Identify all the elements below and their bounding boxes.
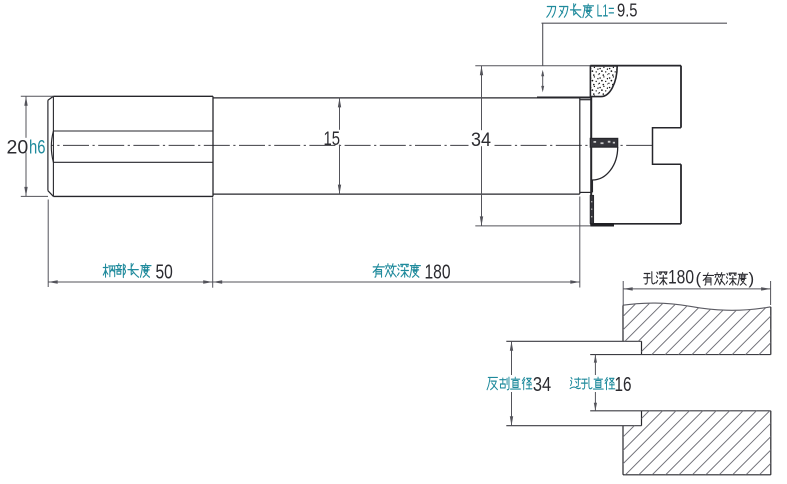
head notch — [653, 128, 682, 165]
text 反刮直径34 — [487, 377, 497, 389]
svg-text:34: 34 — [533, 374, 551, 396]
svg-text:L1=: L1= — [597, 1, 615, 21]
svg-text:50: 50 — [156, 261, 173, 283]
through hole walls — [590, 354, 771, 356]
dim 20h6 line — [25, 96, 27, 196]
svg-text:34: 34 — [471, 129, 491, 151]
text 过孔直径16 — [570, 377, 580, 388]
dim 15 line — [339, 98, 341, 194]
carbide insert middle bar — [590, 138, 617, 147]
carbide insert bottom (edge-on) — [590, 195, 593, 223]
text 有效深度 180 — [373, 264, 384, 277]
shank flat lines — [53, 130, 213, 132]
dim 16 line — [594, 355, 596, 411]
dim 20h6 extension lines — [21, 95, 54, 97]
body outline (d15 bar) — [213, 97, 580, 99]
svg-text:20: 20 — [7, 136, 29, 158]
counterbore walls — [506, 340, 641, 342]
dim hole depth extension lines — [622, 281, 624, 305]
text 刀刃长度L1= 9.5 — [547, 7, 556, 18]
text 孔深180(有效深度) — [644, 272, 655, 284]
dim 34 extension lines — [475, 65, 590, 67]
L1 double arrow — [542, 72, 544, 90]
dim 180 line — [213, 281, 580, 283]
cutter head outline — [590, 66, 592, 224]
hatching top block — [446, 270, 787, 480]
workpiece wavy break line — [623, 303, 771, 310]
dim hole depth line — [623, 288, 770, 290]
flute arc below middle insert — [592, 147, 617, 192]
svg-text:(: ( — [696, 269, 702, 288]
centerline — [51, 144, 653, 146]
svg-text:15: 15 — [324, 128, 341, 150]
dim 50 line — [48, 281, 213, 283]
dim 34 line — [481, 66, 483, 226]
svg-text:): ) — [749, 269, 755, 288]
collar between body and head — [580, 99, 591, 101]
shank/body junction — [212, 96, 214, 196]
svg-text:16: 16 — [615, 374, 632, 396]
dim 34cb line — [511, 341, 513, 425]
text 柄部长度 50 — [103, 264, 115, 277]
svg-text:180: 180 — [668, 268, 694, 289]
bottom insert foot — [590, 223, 614, 226]
shank outline (20 h6) — [47, 100, 49, 191]
carbide insert top (stippled) — [590, 66, 617, 97]
leader line L1 — [542, 22, 728, 24]
svg-text:9.5: 9.5 — [617, 0, 638, 21]
svg-text:h6: h6 — [29, 136, 46, 158]
hatching bottom block — [446, 270, 787, 480]
svg-text:180: 180 — [425, 261, 451, 283]
dim 50 extension lines — [47, 200, 49, 288]
workpiece outline — [622, 305, 624, 341]
